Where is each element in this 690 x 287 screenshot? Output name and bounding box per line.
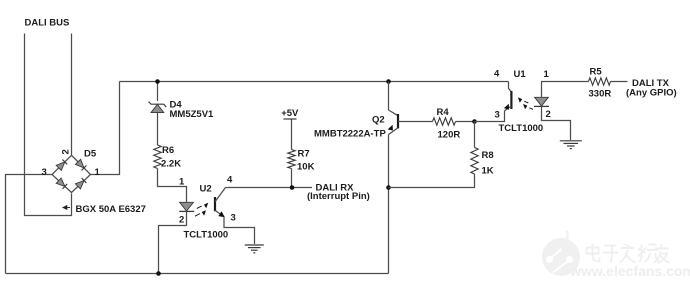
svg-text:1: 1 (95, 167, 101, 178)
wire bridge pin 1 right and up to top rail (91, 82, 120, 175)
resistor R7 (288, 150, 295, 169)
+5V supply bar (284, 118, 297, 120)
wire U2 pin 3 to ground (224, 217, 255, 244)
wire DALI bus right line down to bridge AC1 (pin 2) (71, 34, 73, 157)
bridge pin 4 arrow marker (62, 205, 67, 210)
svg-text:4: 4 (227, 175, 233, 186)
svg-text:MM5Z5V1: MM5Z5V1 (170, 109, 215, 120)
wire R8 to Q2 emitter line (389, 174, 475, 188)
wire Q2 base to R4 (398, 121, 433, 123)
wire U1 pin 2 to ground (542, 106, 571, 140)
svg-text:(Interrupt Pin): (Interrupt Pin) (307, 191, 370, 202)
svg-text:R6: R6 (162, 145, 174, 156)
wire R7 to DALI RX net (291, 169, 293, 188)
svg-text:330R: 330R (589, 89, 612, 100)
svg-text:MMBT2222A-TP: MMBT2222A-TP (314, 129, 386, 140)
svg-text:120R: 120R (438, 130, 461, 141)
bridge diode top-left (3 to 2) (56, 162, 65, 171)
svg-text:3: 3 (495, 110, 500, 121)
wire top rail (120, 81, 509, 83)
svg-text:2: 2 (179, 215, 184, 226)
svg-text:2: 2 (61, 149, 72, 154)
svg-text:R4: R4 (437, 107, 450, 118)
U2 phototransistor (214, 197, 216, 211)
wire DALI bus left line down to bridge AC2 (pin 4) (25, 34, 72, 216)
U2 LED (180, 202, 194, 211)
svg-text:U1: U1 (514, 69, 527, 80)
svg-text:TCLT1000: TCLT1000 (499, 123, 544, 134)
U1 LED (535, 97, 549, 106)
svg-text:2.2K: 2.2K (161, 159, 181, 170)
bridge diode bottom-left (3 to 4) (56, 178, 65, 186)
svg-text:4: 4 (494, 69, 500, 80)
wire Q2 emitter down to bottom rail (388, 135, 390, 274)
transistor Q2 (388, 82, 390, 111)
svg-text:Q2: Q2 (372, 115, 385, 126)
wire R6 to U2 pin 1 (158, 169, 187, 203)
junction top rail / Q2 collector (386, 79, 391, 84)
svg-text:3: 3 (231, 213, 236, 224)
bridge diode bottom-right (4 to 1) (75, 181, 84, 189)
wire R5 to DALI TX (611, 81, 628, 83)
watermark chinese text strokes (587, 244, 670, 264)
watermark logo disc (542, 238, 580, 276)
svg-text:U2: U2 (200, 184, 212, 195)
wire bridge pin 3 to left edge and down to bottom rail (6, 175, 53, 274)
svg-text:R8: R8 (482, 150, 494, 161)
svg-text:D5: D5 (84, 149, 97, 160)
svg-text:1K: 1K (482, 166, 494, 177)
svg-text:3: 3 (42, 167, 47, 178)
svg-text:TCLT1000: TCLT1000 (184, 230, 229, 241)
junction top rail / D4 branch (155, 79, 160, 84)
svg-text:www.elecfans.com: www.elecfans.com (569, 263, 690, 279)
resistor R6 (154, 145, 161, 169)
junction DALI RX node (290, 185, 295, 190)
bridge diode top-right (2 to 1) (75, 159, 84, 168)
resistor R5 (589, 78, 611, 85)
svg-text:DALI BUS: DALI BUS (25, 18, 70, 29)
wire D4 to R6 (157, 113, 159, 145)
U1 phototransistor (509, 82, 512, 93)
U1 light arrows (524, 101, 533, 109)
bridge rectifier D5 diamond outline (52, 155, 91, 192)
svg-text:BGX 50A E6327: BGX 50A E6327 (76, 204, 146, 215)
resistor R8 branch (474, 122, 476, 148)
svg-text:2: 2 (546, 109, 551, 120)
resistor R4 (433, 118, 456, 125)
svg-text:+5V: +5V (281, 108, 299, 119)
wire top rail to zener D4 (157, 82, 159, 102)
svg-text:R7: R7 (298, 149, 310, 160)
wire bottom rail (6, 273, 389, 275)
junction bottom rail / U2 pin2 (156, 271, 161, 276)
wire node to U1 pin 3 (475, 111, 505, 122)
wire +5V to R7 (291, 120, 293, 150)
zener diode D4 (151, 104, 164, 112)
svg-text:1: 1 (544, 69, 550, 80)
U2 light arrows (195, 206, 202, 216)
resistor R8 (471, 148, 478, 175)
wire U2 pin 2 to bottom rail (159, 211, 187, 273)
junction R4 / R8 / U1 pin 3 (472, 119, 477, 124)
wire U1 pin 1 up to R5 (542, 82, 589, 98)
svg-text:10K: 10K (297, 162, 315, 173)
junction Q2 emitter / R8 bottom (386, 185, 391, 190)
ground for U1 pin 2 (560, 141, 582, 149)
wire R4 to node (456, 121, 475, 123)
svg-text:R5: R5 (590, 67, 603, 78)
wire U2 pin 4 to DALI RX net (226, 187, 313, 189)
ground for U2 pin 3 (245, 245, 264, 253)
svg-text:1: 1 (179, 177, 185, 188)
svg-text:(Any GPIO): (Any GPIO) (626, 88, 677, 99)
